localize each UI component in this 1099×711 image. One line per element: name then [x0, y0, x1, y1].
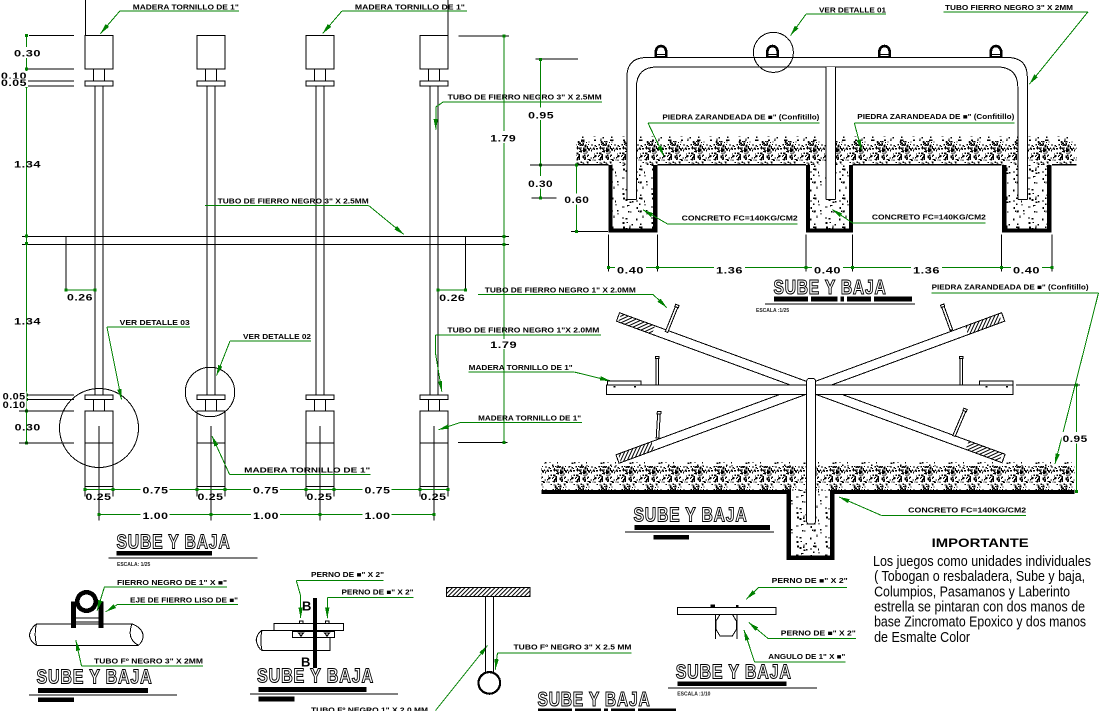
- dim texts left chain: [0, 47, 42, 433]
- handle plank B upper-right: [940, 304, 953, 331]
- bolt symbols in bracket: [299, 633, 304, 637]
- svg-text:VER DETALLE 01: VER DETALLE 01: [819, 7, 886, 14]
- dim 0.60: [576, 165, 578, 232]
- svg-text:0.40: 0.40: [1013, 266, 1040, 277]
- axle lines: [76, 617, 98, 619]
- pit 1 outline: [610, 165, 655, 231]
- clamp right bar: [98, 602, 103, 628]
- seesaw plank B (lower-left to upper-right): [616, 313, 1005, 463]
- dim 0.26 left: [65, 236, 67, 289]
- handle plank A upper-left: [665, 304, 679, 332]
- svg-text:SUBE Y BAJA: SUBE Y BAJA: [538, 689, 651, 711]
- svg-text:B: B: [302, 599, 311, 614]
- svg-text:SUBE Y BAJA: SUBE Y BAJA: [37, 666, 153, 688]
- section bar B-B: [313, 598, 317, 668]
- svg-text:PIEDRA ZARANDEADA DE ■" (Confi: PIEDRA ZARANDEADA DE ■" (Confitillo): [932, 284, 1089, 291]
- svg-text:0.40: 0.40: [814, 266, 841, 277]
- svg-text:1.00: 1.00: [143, 511, 169, 522]
- svg-text:PERNO DE ■" X 2": PERNO DE ■" X 2": [342, 590, 414, 597]
- handle plank A lower-right: [952, 408, 967, 437]
- tube octagon: [716, 615, 736, 636]
- ceiling hatched bar: [447, 588, 531, 597]
- svg-text:TUBO DE FIERRO NEGRO 3" X 2.5M: TUBO DE FIERRO NEGRO 3" X 2.5MM: [448, 95, 602, 102]
- detail 01 circle: [753, 32, 793, 72]
- ground gravel band star: [542, 466, 1075, 490]
- svg-text:0.25: 0.25: [198, 492, 224, 503]
- ground thick line left: [542, 490, 789, 494]
- svg-text:PERNO DE ■" X 2": PERNO DE ■" X 2": [311, 572, 384, 579]
- bracket: [292, 632, 334, 638]
- bottom dim row 1.00: [99, 514, 434, 516]
- svg-text:MADERA TORNILLO DE 1": MADERA TORNILLO DE 1": [355, 4, 465, 11]
- svg-text:1.36: 1.36: [913, 266, 940, 277]
- svg-text:PERNO DE ■" X 2": PERNO DE ■" X 2": [772, 578, 848, 585]
- tube frame outer: [627, 58, 1027, 200]
- svg-text:ESCALA :1/10: ESCALA :1/10: [677, 691, 710, 697]
- svg-text:SUBE Y BAJA: SUBE Y BAJA: [676, 661, 792, 683]
- svg-text:PIEDRA ZARANDEADA DE ■" (Confi: PIEDRA ZARANDEADA DE ■" (Confitillo): [662, 115, 819, 122]
- right dim chain 1.79: [503, 36, 505, 442]
- svg-text:0.30: 0.30: [14, 49, 41, 60]
- bolt heads on top: [299, 621, 303, 624]
- ground gravel band: [577, 141, 1077, 165]
- svg-text:1.34: 1.34: [14, 160, 41, 171]
- svg-text:0.25: 0.25: [421, 492, 447, 503]
- handle on plank right: [960, 356, 964, 385]
- concrete in pit 1: [613, 165, 654, 229]
- svg-text:0.25: 0.25: [86, 492, 112, 503]
- wood seat board: [274, 623, 344, 630]
- svg-text:1.79: 1.79: [490, 133, 516, 144]
- svg-text:1.79: 1.79: [490, 340, 517, 351]
- pivot mount 4: [989, 46, 1002, 58]
- svg-text:0.10: 0.10: [3, 400, 26, 411]
- tube cylinder: [29, 624, 143, 645]
- svg-text:VER DETALLE 03: VER DETALLE 03: [120, 320, 190, 327]
- ground surface lines: [577, 164, 1077, 166]
- svg-text:ESCALA: 1/25: ESCALA: 1/25: [117, 562, 151, 568]
- concrete in star pit: [791, 490, 830, 556]
- middle post: [826, 67, 836, 200]
- svg-text:0.75: 0.75: [143, 486, 169, 497]
- extension lines left dims: [5, 36, 74, 443]
- post P3: [306, 36, 334, 521]
- top extension line right: [447, 0, 449, 36]
- star pit outline: [789, 490, 833, 558]
- dim 0.95 star: [1075, 385, 1077, 492]
- svg-text:SUBE Y BAJA: SUBE Y BAJA: [634, 504, 748, 526]
- top extension line left: [84, 0, 86, 36]
- tube frame white core: [632, 62, 1023, 199]
- svg-text:IMPORTANTE: IMPORTANTE: [932, 536, 1029, 550]
- svg-text:SUBE Y BAJA: SUBE Y BAJA: [117, 532, 231, 554]
- hanging tube: [484, 596, 486, 671]
- svg-text:MADERA TORNILLO DE 1": MADERA TORNILLO DE 1": [478, 416, 581, 423]
- svg-text:VER DETALLE 02: VER DETALLE 02: [243, 334, 311, 341]
- svg-text:CONCRETO FC=140KG/CM2: CONCRETO FC=140KG/CM2: [908, 508, 1026, 515]
- svg-text:CONCRETO FC=140KG/CM2: CONCRETO FC=140KG/CM2: [872, 215, 986, 222]
- concrete in pit 3: [1007, 165, 1047, 229]
- svg-text:SUBE Y BAJA: SUBE Y BAJA: [774, 277, 887, 299]
- pit 2 outline: [808, 165, 851, 231]
- svg-text:TUBO DE FIERRO NEGRO 3" X 2.5M: TUBO DE FIERRO NEGRO 3" X 2.5MM: [218, 199, 369, 206]
- tube frame inner: [636, 67, 1017, 200]
- left dim chain line: [26, 36, 28, 443]
- svg-text:0.75: 0.75: [253, 486, 279, 497]
- svg-text:0.05: 0.05: [1, 78, 27, 89]
- svg-text:TUBO DE FIERRO NEGRO 1"X 2.0MM: TUBO DE FIERRO NEGRO 1"X 2.0MM: [447, 328, 599, 335]
- seat plank band: [22, 235, 509, 237]
- pit 3 outline: [1004, 165, 1049, 231]
- angle sides: [714, 615, 716, 640]
- central post: [807, 379, 816, 525]
- bottom dim row 0.25/0.75: [85, 488, 448, 490]
- handle on plank left: [655, 356, 659, 385]
- pivot mount 2: [766, 46, 779, 58]
- clamp ring: [77, 592, 95, 610]
- svg-text:CONCRETO FC=140KG/CM2: CONCRETO FC=140KG/CM2: [682, 215, 798, 222]
- pivot mount 3: [878, 46, 891, 58]
- svg-text:ANGULO DE 1" X ■": ANGULO DE 1" X ■": [768, 654, 845, 661]
- frame leg caps: [627, 199, 637, 201]
- svg-text:EJE DE FIERRO LISO DE ■": EJE DE FIERRO LISO DE ■": [130, 597, 238, 604]
- svg-text:TUBO Fº NEGRO 3" X 2.5 MM: TUBO Fº NEGRO 3" X 2.5 MM: [514, 644, 632, 651]
- svg-text:MADERA TORNILLO DE 1": MADERA TORNILLO DE 1": [244, 467, 370, 474]
- post P2: [197, 36, 225, 521]
- tube cylinder d2: [256, 630, 330, 650]
- svg-text:0.95: 0.95: [528, 111, 554, 122]
- svg-text:de Esmalte Color: de Esmalte Color: [874, 629, 970, 646]
- plank: [677, 607, 776, 614]
- svg-text:FIERRO NEGRO DE 1" X ■": FIERRO NEGRO DE 1" X ■": [117, 580, 227, 587]
- svg-text:0.30: 0.30: [15, 422, 41, 433]
- clamp left bar: [71, 602, 76, 628]
- svg-text:TUBO Fº NEGRO 3" X 2MM: TUBO Fº NEGRO 3" X 2MM: [94, 659, 203, 666]
- svg-text:1.34: 1.34: [14, 317, 41, 328]
- svg-text:MADERA TORNILLO DE 1": MADERA TORNILLO DE 1": [469, 365, 573, 372]
- svg-text:0.25: 0.25: [307, 492, 333, 503]
- svg-text:ESCALA :1/25: ESCALA :1/25: [756, 308, 789, 314]
- concrete in pit 2: [810, 165, 849, 229]
- svg-text:0.26: 0.26: [439, 293, 465, 304]
- bolt head on plank: [710, 605, 715, 608]
- svg-text:SUBE Y BAJA: SUBE Y BAJA: [257, 665, 374, 687]
- ring bottom: [479, 672, 501, 694]
- dim 0.95/0.30 left chain: [539, 59, 541, 198]
- horizontal plank: [606, 385, 1013, 395]
- handle plank B lower-left: [656, 411, 661, 438]
- seesaw plank A (upper-left to lower-right): [616, 313, 1005, 463]
- bottom dim row section: [608, 267, 1052, 269]
- svg-text:PIEDRA ZARANDEADA DE ■" (Confi: PIEDRA ZARANDEADA DE ■" (Confitillo): [857, 114, 1014, 121]
- svg-text:1.00: 1.00: [365, 511, 391, 522]
- left end plate: [608, 381, 642, 385]
- svg-text:0.75: 0.75: [365, 486, 391, 497]
- right end plate: [979, 381, 1012, 385]
- svg-text:TUBO FIERRO NEGRO 3" X 2MM: TUBO FIERRO NEGRO 3" X 2MM: [945, 5, 1073, 12]
- svg-text:0.95: 0.95: [1063, 434, 1088, 445]
- svg-text:0.30: 0.30: [528, 179, 553, 190]
- svg-text:0.40: 0.40: [617, 266, 644, 277]
- detail circle 03: [60, 389, 139, 468]
- svg-text:1.00: 1.00: [253, 511, 279, 522]
- svg-text:TUBO Fº NEGRO 1" X 2.0 MM: TUBO Fº NEGRO 1" X 2.0 MM: [311, 707, 428, 711]
- post P4: [420, 36, 448, 521]
- svg-text:PERNO DE ■" X 2": PERNO DE ■" X 2": [781, 630, 856, 637]
- post P1: [85, 36, 113, 521]
- svg-text:0.26: 0.26: [67, 293, 93, 304]
- pivot mount 1: [654, 46, 667, 58]
- svg-text:1.36: 1.36: [716, 266, 743, 277]
- svg-text:TUBO DE FIERRO NEGRO 1" X 2.0M: TUBO DE FIERRO NEGRO 1" X 2.0MM: [485, 287, 636, 294]
- svg-text:MADERA TORNILLO DE 1": MADERA TORNILLO DE 1": [133, 4, 239, 11]
- ground thick line right: [832, 490, 1075, 494]
- dim 0.26 right: [465, 236, 467, 290]
- detail circle 02: [185, 367, 234, 416]
- svg-text:0.60: 0.60: [564, 195, 589, 206]
